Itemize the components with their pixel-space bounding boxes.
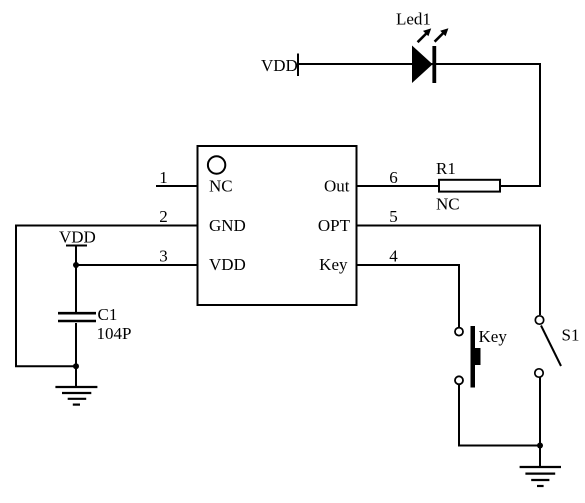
svg-text:5: 5 — [389, 207, 398, 226]
svg-text:2: 2 — [159, 207, 168, 226]
svg-text:Led1: Led1 — [396, 10, 431, 29]
wire: vertical drop from LED net to R1 right side — [539, 63, 541, 186]
svg-text:104P: 104P — [97, 324, 132, 343]
svg-text:Key: Key — [479, 327, 508, 346]
node: VDD / pin3 junction — [73, 262, 79, 268]
IC U1 body — [198, 146, 357, 305]
svg-text:R1: R1 — [436, 159, 456, 178]
node: right ground junction — [537, 443, 543, 449]
svg-text:3: 3 — [159, 247, 168, 266]
wire: R1 right side to LED net — [500, 185, 541, 187]
wire: pin-3 node down to C1 top plate — [75, 265, 77, 314]
wire: ground node down to ground symbol — [75, 366, 77, 387]
pin-1 indicator circle — [208, 156, 225, 173]
ground (right) — [520, 467, 561, 486]
svg-text:Out: Out — [324, 177, 350, 196]
svg-text:GND: GND — [209, 216, 246, 235]
power symbol VDD (mid-left) — [59, 228, 96, 247]
push button Key — [455, 326, 481, 388]
wire: pin 6 to R1 — [357, 185, 440, 187]
wire: left rail bottom horizontal to C1 ground node — [15, 365, 76, 367]
svg-text:C1: C1 — [98, 305, 118, 324]
wire: pin 5 OPT to right rail — [357, 225, 541, 227]
ground (left) — [55, 387, 97, 405]
wire: C1 bottom plate to ground node — [75, 323, 77, 366]
wire: VDD rail to LED and on to top-right corner — [298, 63, 540, 65]
svg-text:NC: NC — [209, 177, 233, 196]
capacitor C1 — [58, 313, 96, 321]
wire: pin 2 to left rail — [16, 225, 198, 227]
power symbol VDD (LED supply rail) — [261, 54, 298, 77]
wire: S1 bottom contact down to ground junction — [539, 377, 541, 446]
svg-text:S1: S1 — [562, 326, 580, 345]
wire: push button bottom contact down — [458, 384, 460, 445]
svg-text:VDD: VDD — [59, 228, 96, 247]
node: left ground junction — [73, 363, 79, 369]
svg-text:VDD: VDD — [261, 56, 298, 75]
wire: pin 4 Key to push button — [357, 264, 460, 266]
wire: right rail vertical down to S1 — [539, 225, 541, 316]
wire: junction down to ground symbol — [539, 446, 541, 468]
svg-text:6: 6 — [389, 168, 398, 187]
wire: pin 3 to VDD node — [76, 264, 198, 266]
wire: pin 1 stub — [156, 185, 198, 187]
svg-text:OPT: OPT — [318, 216, 351, 235]
svg-text:1: 1 — [159, 168, 168, 187]
resistor R1 — [439, 180, 500, 192]
svg-text:NC: NC — [436, 195, 460, 214]
LED Led1 — [412, 28, 448, 83]
wire: vertical down to push button top contact — [458, 264, 460, 328]
svg-text:Key: Key — [319, 255, 348, 274]
wire: left rail vertical — [15, 225, 17, 367]
wire: bottom horizontal to ground junction — [458, 445, 540, 447]
wire: VDD bar down to pin-3 node — [75, 246, 77, 266]
switch S1 — [535, 316, 561, 377]
svg-text:4: 4 — [389, 247, 398, 266]
svg-text:VDD: VDD — [209, 255, 246, 274]
